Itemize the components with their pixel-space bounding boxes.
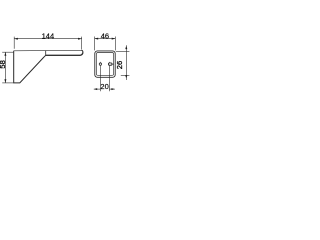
dimension 46: line: [95, 38, 116, 40]
bracket arm underside and end cap (thicker): [46, 53, 83, 56]
dimension 58: line: [4, 52, 6, 83]
dimension 144: arrows: [14, 38, 18, 40]
dimension 20: extension lines from holes: [99, 62, 101, 91]
svg-text:26: 26: [115, 61, 124, 69]
dimension 20: right line+arrow: [109, 88, 114, 90]
dimension 46: extension lines: [94, 37, 96, 51]
bracket arm top edge: [14, 49, 82, 52]
bracket side-view outline: [14, 50, 83, 83]
dimension 26: arrows: [125, 46, 127, 50]
slotted screw hole: [108, 63, 112, 65]
dimension 58: arrows: [4, 52, 6, 56]
svg-text:144: 144: [42, 31, 55, 40]
dimension 144: line: [14, 38, 82, 40]
dimension 46: arrows: [95, 38, 99, 40]
joint tick on arm: [45, 51, 47, 56]
dimension 26: extension ticks: [116, 51, 130, 53]
wall plate front view: outer rounded rect: [95, 51, 115, 77]
round screw hole: [99, 63, 101, 65]
svg-text:46: 46: [101, 31, 109, 40]
dimension 26: line: [125, 45, 127, 80]
svg-text:20: 20: [100, 82, 108, 91]
wall plate front view: inner rounded rect: [96, 53, 113, 76]
dimension 144: extension lines: [13, 37, 15, 49]
dimension 58: extension lines: [2, 51, 13, 53]
dimension 20: left line+arrow: [94, 88, 101, 90]
slot tick: [112, 63, 114, 65]
svg-text:58: 58: [0, 60, 7, 68]
